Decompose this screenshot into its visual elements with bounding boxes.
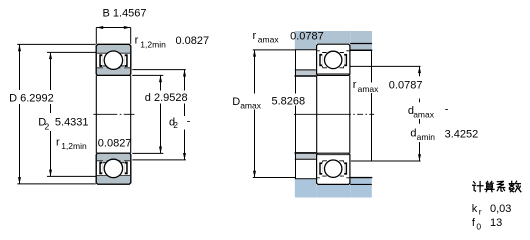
svg-text:2: 2	[45, 122, 50, 132]
svg-text:0.0787: 0.0787	[290, 30, 324, 42]
Damax dimension line	[254, 50, 256, 94]
section outline	[96, 153, 131, 184]
hanzi xi (factor)	[497, 181, 505, 191]
centerline right view	[294, 113, 374, 115]
D2 extension lines	[47, 51, 96, 53]
ball	[325, 51, 342, 68]
vertical right (shaft end / abutment)	[371, 51, 373, 83]
d extension lines	[132, 74, 163, 76]
svg-text:5.8268: 5.8268	[272, 95, 306, 107]
housing bottom: strip below bearing	[316, 185, 350, 198]
Damax extension lines	[253, 49, 296, 51]
right bearing lower section (mirror)	[317, 153, 350, 184]
d2 extension lines	[132, 69, 186, 71]
hanzi shu (coefficient)	[509, 181, 521, 192]
d_amin extension bottom	[351, 160, 421, 162]
svg-text:d 2.9528: d 2.9528	[145, 92, 188, 104]
svg-text:amax: amax	[413, 110, 435, 120]
svg-text:5.4331: 5.4331	[55, 116, 89, 128]
svg-text:D 6.2992: D 6.2992	[9, 93, 54, 105]
svg-text:0.0787: 0.0787	[389, 79, 423, 91]
outer raceway profile line	[97, 174, 130, 176]
housing top: right block	[350, 31, 372, 50]
shaft shoulder top	[295, 70, 317, 76]
svg-text:1,2min: 1,2min	[140, 40, 166, 50]
shaft shoulder bottom	[295, 153, 317, 159]
housing top: left block	[295, 31, 316, 49]
inner ring band	[97, 68, 130, 75]
inner ring band	[97, 154, 130, 161]
svg-text:13: 13	[490, 217, 502, 229]
inner ring shoulders	[103, 160, 107, 163]
d dimension line	[160, 75, 162, 90]
svg-text:amin: amin	[417, 132, 436, 142]
inner raceway profile line	[97, 67, 130, 69]
svg-text:1,2min: 1,2min	[61, 141, 87, 151]
svg-text:2: 2	[173, 120, 178, 130]
d_a extension top	[350, 65, 421, 67]
ball	[104, 51, 122, 69]
svg-text:0.0827: 0.0827	[98, 137, 132, 149]
hanzi ji (calculate)	[473, 182, 483, 192]
section outline	[96, 44, 131, 75]
housing bottom: right block	[350, 178, 372, 197]
outer ring band	[97, 176, 130, 184]
centerline left view	[93, 113, 134, 115]
outer ring band	[97, 45, 130, 53]
svg-text:d: d	[410, 127, 416, 139]
svg-text:amax: amax	[358, 84, 380, 94]
d2 dimension line	[184, 70, 186, 91]
right bearing upper section	[317, 44, 350, 75]
left seal	[99, 54, 102, 67]
housing bore vertical left	[295, 50, 297, 94]
svg-text:-: -	[187, 115, 191, 127]
inner ring shoulders	[103, 66, 107, 69]
housing bottom: left block	[295, 179, 316, 197]
svg-text:r: r	[253, 30, 257, 42]
svg-text:amax: amax	[240, 101, 262, 111]
svg-text:3.4252: 3.4252	[445, 129, 479, 141]
svg-text:0: 0	[476, 222, 481, 232]
svg-text:r: r	[56, 136, 60, 148]
d_a dimension line with arrows	[418, 66, 421, 73]
bearing side face lines between sections	[95, 75, 97, 153]
right seal	[125, 54, 128, 67]
svg-text:0,03: 0,03	[490, 203, 511, 215]
svg-text:-: -	[445, 104, 449, 116]
svg-text:amax: amax	[258, 35, 280, 45]
outer raceway profile line	[97, 52, 130, 54]
svg-text:D: D	[232, 96, 240, 108]
bearing face lines between sections (right view)	[316, 75, 318, 153]
计算系数 (calculation factors) drawn as paths	[473, 181, 521, 192]
B dimension extension lines	[95, 28, 97, 44]
inner raceway profile line	[97, 160, 130, 162]
D dimension line	[19, 44, 21, 90]
ball	[104, 159, 122, 177]
hanzi suan	[485, 181, 494, 191]
svg-text:B 1.4567: B 1.4567	[103, 8, 147, 20]
svg-text:r: r	[353, 79, 357, 91]
outer raceway lines	[317, 51, 349, 53]
right seal	[125, 162, 128, 175]
left seal	[99, 162, 102, 175]
D extension lines	[17, 43, 95, 45]
svg-text:r: r	[479, 207, 482, 217]
bearing lower section body (mirror)	[96, 153, 131, 184]
B dimension line	[96, 27, 130, 29]
inner raceway lines	[317, 66, 349, 74]
outline re-stroke	[96, 153, 131, 184]
outline re-stroke	[96, 44, 131, 75]
D2 dimension line	[50, 52, 52, 90]
svg-text:r: r	[135, 35, 139, 47]
svg-text:0.0827: 0.0827	[176, 35, 210, 47]
seal groove brackets	[319, 54, 322, 66]
housing top: strip above bearing	[316, 31, 350, 44]
svg-text:k: k	[472, 203, 478, 215]
bearing upper section body	[96, 44, 131, 75]
